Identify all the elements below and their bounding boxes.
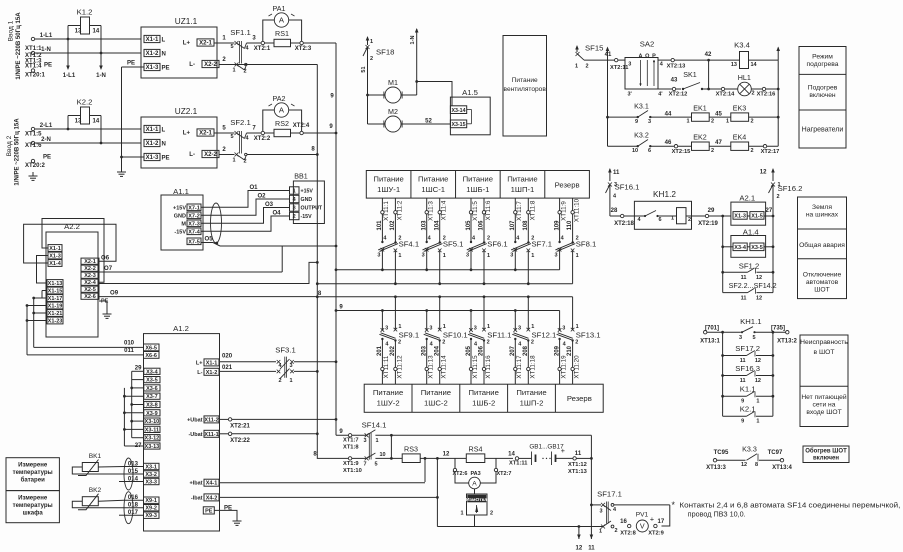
svg-text:12: 12 [756,275,762,281]
svg-text:SF2.1: SF2.1 [230,118,251,127]
svg-text:XT2:1: XT2:1 [254,46,271,52]
svg-text:X1-21: X1-21 [48,311,63,317]
svg-text:SF14.1: SF14.1 [362,421,387,430]
svg-text:SF1.2: SF1.2 [739,262,760,271]
svg-text:X3-15: X3-15 [451,122,465,128]
svg-text:3: 3 [510,253,513,259]
svg-text:XT13:3: XT13:3 [706,465,726,471]
svg-text:[701]: [701] [705,326,719,332]
svg-text:3: 3 [422,253,425,259]
svg-text:подогрева: подогрева [807,61,839,68]
svg-text:-Ubat: -Ubat [188,432,202,438]
svg-text:BB1: BB1 [294,173,308,181]
svg-text:SF3.1: SF3.1 [275,346,296,355]
svg-text:2: 2 [531,340,534,346]
svg-text:42: 42 [705,52,712,58]
svg-text:RS1: RS1 [275,30,289,38]
svg-text:Контакты 2,4 и 6,8 автомата SF: Контакты 2,4 и 6,8 автомата SF14 соедине… [679,502,900,510]
svg-text:X1-15: X1-15 [48,289,63,295]
svg-text:SF11.1: SF11.1 [487,331,511,340]
svg-text:202: 202 [390,345,396,356]
svg-text:5: 5 [230,134,233,140]
svg-text:6: 6 [658,217,661,223]
svg-text:[735]: [735] [771,326,785,332]
svg-text:107: 107 [510,220,516,231]
svg-text:XT11:18: XT11:18 [529,355,536,379]
svg-text:O1: O1 [249,185,258,191]
svg-text:X3-9: X3-9 [146,411,158,417]
svg-text:K3.2: K3.2 [634,132,649,140]
svg-text:XT11:11: XT11:11 [383,355,390,378]
svg-text:1ШУ-1: 1ШУ-1 [377,185,400,194]
svg-text:XT2:12: XT2:12 [669,92,688,98]
svg-text:XT2:17: XT2:17 [761,149,780,155]
svg-text:43: 43 [671,78,678,84]
svg-text:X7-5: X7-5 [188,239,200,245]
svg-text:L-: L- [189,152,195,158]
svg-text:PE: PE [43,155,51,161]
svg-text:2: 2 [751,119,754,125]
svg-text:X1-1: X1-1 [146,37,159,43]
svg-text:SF8.1: SF8.1 [576,240,597,249]
svg-text:SF1.1: SF1.1 [230,28,251,37]
svg-text:12: 12 [443,451,450,457]
svg-text:1: 1 [370,39,373,45]
svg-text:A: A [279,106,285,115]
svg-text:*: * [672,500,676,510]
svg-text:X2-6: X2-6 [84,294,96,300]
svg-text:2: 2 [688,217,691,223]
svg-text:X2-4: X2-4 [84,280,97,286]
svg-text:4': 4' [658,92,663,98]
svg-text:Питание: Питание [463,175,493,184]
svg-text:K3.3: K3.3 [742,446,757,454]
svg-text:210: 210 [567,345,573,356]
svg-text:+Ubat: +Ubat [187,417,203,423]
svg-text:14: 14 [508,452,515,458]
svg-text:105: 105 [466,220,472,231]
svg-text:GB1...GB17: GB1...GB17 [529,444,564,451]
svg-text:K3.4: K3.4 [734,41,751,50]
svg-text:1: 1 [487,324,490,330]
svg-text:X3-8: X3-8 [146,403,158,409]
svg-text:X7-2: X7-2 [188,213,200,219]
svg-text:Питание: Питание [512,77,538,84]
svg-text:Нет питающей: Нет питающей [801,393,847,401]
svg-text:X1-17: X1-17 [48,296,63,302]
svg-text:XT11:15: XT11:15 [472,355,479,379]
svg-text:PA1: PA1 [273,5,286,13]
svg-text:ИзмОткл: ИзмОткл [466,497,487,503]
svg-text:SF5.1: SF5.1 [443,240,464,249]
svg-text:X2-2: X2-2 [204,152,217,158]
svg-text:1: 1 [460,511,463,517]
svg-text:12: 12 [755,378,761,384]
svg-text:3: 3 [385,326,388,332]
svg-text:XT2:16: XT2:16 [757,92,776,98]
svg-text:3: 3 [290,363,293,369]
svg-text:X2-1: X2-1 [199,41,212,47]
svg-text:включен: включен [813,456,839,462]
svg-text:X1-3: X1-3 [146,65,159,71]
svg-text:1ШП-1: 1ШП-1 [511,185,535,194]
svg-text:O: O [645,54,650,60]
svg-text:2: 2 [487,340,490,346]
svg-text:3: 3 [739,335,742,341]
svg-text:шкафа: шкафа [23,510,44,517]
svg-text:XT11:19: XT11:19 [560,355,567,379]
svg-text:TC95: TC95 [714,450,729,456]
svg-text:1: 1 [443,324,446,330]
svg-text:1ШП-2: 1ШП-2 [520,399,544,408]
svg-text:X3-3: X3-3 [145,479,157,485]
svg-text:EK2: EK2 [693,134,707,142]
svg-text:N: N [162,51,166,57]
svg-text:110: 110 [567,220,573,230]
svg-text:208: 208 [523,345,529,356]
svg-text:PE: PE [162,155,170,161]
svg-text:X3-5: X3-5 [751,245,763,251]
svg-text:205: 205 [466,345,472,356]
svg-text:РА3: РА3 [471,471,481,477]
svg-text:1: 1 [726,119,729,125]
svg-text:SF10.1: SF10.1 [443,331,468,340]
svg-text:X3-4: X3-4 [734,245,747,251]
svg-text:SF16.2: SF16.2 [778,184,803,193]
svg-text:SF9.1: SF9.1 [399,331,420,340]
svg-text:SF17.2: SF17.2 [735,344,760,353]
svg-text:O9: O9 [110,291,119,297]
svg-text:3: 3 [555,253,558,259]
svg-text:SF17.1: SF17.1 [597,490,622,499]
svg-text:включен: включен [809,92,836,99]
svg-text:XT2:8: XT2:8 [620,531,636,537]
svg-text:Отключение: Отключение [803,272,842,279]
svg-text:Ввод 1: Ввод 1 [8,20,15,41]
svg-text:1: 1 [398,253,401,259]
svg-text:SF7.1: SF7.1 [532,240,553,249]
svg-text:8: 8 [755,462,758,468]
svg-text:X1-3: X1-3 [49,254,61,260]
svg-text:A: A [639,54,643,60]
svg-text:1: 1 [531,253,534,259]
svg-text:X7-3: X7-3 [188,221,200,227]
svg-text:L+: L+ [183,41,191,47]
svg-text:2: 2 [586,64,589,70]
svg-text:XT11:5: XT11:5 [472,201,479,221]
svg-text:203: 203 [422,345,428,356]
svg-text:XT13:1: XT13:1 [700,339,720,345]
svg-text:TC97: TC97 [768,450,783,456]
svg-text:X7-4: X7-4 [188,229,201,235]
svg-text:L-: L- [197,370,202,376]
svg-text:16: 16 [620,519,627,525]
svg-text:XT2:19: XT2:19 [698,221,718,227]
svg-text:12: 12 [756,295,762,301]
svg-text:X1-4: X1-4 [49,261,62,267]
svg-text:51: 51 [361,66,367,72]
svg-text:6: 6 [648,148,651,154]
svg-text:XT2:3: XT2:3 [295,46,312,52]
svg-text:Земля: Земля [812,204,832,211]
svg-text:температуры: температуры [13,503,53,509]
svg-text:SF2.2...SF14.2: SF2.2...SF14.2 [729,282,777,290]
svg-text:A1.5: A1.5 [462,88,478,97]
svg-text:L: L [162,37,166,43]
svg-text:13: 13 [75,119,82,125]
svg-text:XT2:14: XT2:14 [716,92,736,98]
svg-text:1: 1 [756,399,759,405]
svg-text:Питание: Питание [418,175,448,184]
svg-text:29: 29 [708,208,715,214]
svg-text:ШОТ: ШОТ [814,287,829,294]
svg-text:XT1:13: XT1:13 [568,469,587,475]
svg-text:X3-4: X3-4 [146,369,159,375]
svg-text:UZ1.1: UZ1.1 [175,17,198,26]
svg-text:XT2:18: XT2:18 [614,221,634,227]
svg-text:O6: O6 [101,256,110,262]
svg-text:1ШБ-2: 1ШБ-2 [472,399,495,408]
svg-text:L-: L- [189,62,195,68]
svg-text:Обогрев ШОТ: Обогрев ШОТ [805,448,847,455]
svg-text:011: 011 [124,348,134,354]
svg-text:в ШОТ: в ШОТ [814,349,835,356]
svg-text:автоматов: автоматов [806,279,839,286]
svg-text:PA2: PA2 [273,95,286,103]
svg-text:2: 2 [615,528,618,534]
svg-text:3: 3 [599,509,602,515]
svg-text:XT11:1: XT11:1 [383,201,390,221]
svg-text:17: 17 [658,519,665,525]
svg-text:X2-2: X2-2 [204,62,217,68]
svg-text:X3-7: X3-7 [146,394,158,400]
svg-text:-15V: -15V [301,214,313,220]
svg-text:209: 209 [554,345,560,356]
svg-text:X3-5: X3-5 [146,378,158,384]
svg-text:109: 109 [554,220,560,231]
svg-text:GND: GND [174,213,186,219]
svg-text:вентиляторов: вентиляторов [504,86,547,93]
svg-text:A2.1: A2.1 [739,194,755,203]
svg-text:1: 1 [487,253,490,259]
svg-text:3: 3 [562,326,565,332]
svg-text:9: 9 [635,119,638,125]
svg-text:X11-2: X11-2 [204,417,218,423]
svg-text:X2-2: X2-2 [84,266,96,272]
svg-text:KH1.1: KH1.1 [740,317,761,326]
svg-text:1ШС-1: 1ШС-1 [421,185,445,194]
svg-text:XT1:11: XT1:11 [509,461,528,467]
svg-text:XT2:9: XT2:9 [648,531,664,537]
svg-text:1/N/PE ~220В 50Гц 15А: 1/N/PE ~220В 50Гц 15А [15,118,21,186]
svg-text:N: N [162,141,166,147]
svg-text:EK1: EK1 [693,105,707,113]
svg-text:PE: PE [127,61,135,67]
svg-text:14: 14 [93,29,100,35]
svg-text:XT11:7: XT11:7 [516,201,523,221]
svg-text:2: 2 [751,91,754,97]
svg-text:XT11:8: XT11:8 [529,200,536,220]
svg-text:1ШБ-1: 1ШБ-1 [466,185,489,194]
svg-text:Общая авария: Общая авария [799,241,845,249]
svg-text:X1-1: X1-1 [146,127,159,133]
svg-text:XT11:9: XT11:9 [560,201,567,221]
svg-text:X2-3: X2-3 [84,273,96,279]
svg-text:103: 103 [422,220,428,231]
svg-text:106: 106 [479,220,485,231]
svg-text:XT1:9: XT1:9 [343,461,359,467]
svg-text:Питание: Питание [507,175,537,184]
svg-text:11: 11 [740,378,746,384]
svg-text:1: 1 [293,189,296,195]
svg-text:44: 44 [665,112,672,118]
svg-text:XT2:11: XT2:11 [610,65,629,71]
svg-text:A1.2: A1.2 [173,324,189,333]
svg-text:2: 2 [278,378,281,384]
svg-text:5: 5 [374,462,377,468]
svg-text:X9-2: X9-2 [145,506,157,512]
svg-text:3: 3 [293,206,296,212]
svg-text:SA2: SA2 [640,40,655,49]
svg-text:X3-2: X3-2 [145,472,157,478]
svg-text:UZ2.1: UZ2.1 [175,107,198,116]
svg-text:K1.2: K1.2 [77,8,93,17]
svg-text:L: L [162,127,166,133]
svg-text:-15V: -15V [174,229,186,235]
svg-text:207: 207 [510,345,516,356]
svg-text:XT1:12: XT1:12 [568,462,587,468]
svg-text:1: 1 [398,324,401,330]
svg-text:1-N: 1-N [41,47,51,53]
svg-text:Неисправность: Неисправность [800,339,848,346]
svg-text:RS3: RS3 [404,446,418,454]
svg-text:52: 52 [425,119,432,125]
svg-text:L+: L+ [196,360,203,366]
svg-text:Питание: Питание [373,175,403,184]
svg-text:-Ibat: -Ibat [191,495,203,501]
svg-text:+15V: +15V [173,205,186,211]
svg-text:2: 2 [398,340,401,346]
svg-text:SF4.1: SF4.1 [399,240,420,249]
svg-text:13: 13 [731,62,737,68]
svg-text:X2-5: X2-5 [84,287,96,293]
svg-text:45: 45 [715,112,722,118]
svg-text:2: 2 [490,511,493,517]
svg-text:2: 2 [293,214,296,220]
svg-text:204: 204 [434,345,440,356]
svg-text:PE: PE [205,509,213,515]
svg-text:на шинках: на шинках [806,212,839,219]
svg-text:XT2:7: XT2:7 [497,471,512,477]
svg-text:1ШУ-2: 1ШУ-2 [377,399,400,408]
svg-text:Подогрев: Подогрев [808,85,838,92]
svg-text:XT11:6: XT11:6 [485,200,492,220]
svg-text:A1.1: A1.1 [173,187,189,196]
svg-text:3: 3 [518,326,521,332]
svg-text:14: 14 [751,62,758,68]
svg-text:1: 1 [443,253,446,259]
svg-text:XT2:21: XT2:21 [230,424,250,430]
svg-text:1: 1 [576,324,579,330]
svg-text:3: 3 [377,253,380,259]
svg-text:X4-1: X4-1 [206,481,218,487]
svg-text:5: 5 [752,335,755,341]
svg-text:O4: O4 [272,211,281,217]
svg-text:V: V [640,523,645,531]
svg-text:SK1: SK1 [683,71,697,79]
svg-text:2: 2 [777,194,780,200]
svg-text:2: 2 [711,119,714,125]
svg-text:206: 206 [479,345,485,356]
svg-text:2: 2 [243,69,246,75]
svg-text:O3: O3 [265,202,274,208]
svg-text:XT11:3: XT11:3 [428,201,435,221]
svg-text:X1-1: X1-1 [206,360,218,366]
svg-text:2: 2 [243,159,246,165]
svg-text:PE: PE [162,65,170,71]
svg-text:M2: M2 [388,108,398,116]
svg-text:XT1:7: XT1:7 [343,438,359,444]
svg-text:BK1: BK1 [89,453,102,460]
svg-text:EK3: EK3 [733,105,747,113]
svg-text:провод ПВЗ 10,0.: провод ПВЗ 10,0. [688,512,746,519]
svg-text:1: 1 [671,216,674,222]
svg-text:Режим: Режим [812,54,833,61]
svg-text:X3-14: X3-14 [451,108,465,114]
svg-text:1: 1 [576,253,579,259]
svg-text:41: 41 [605,52,612,58]
svg-text:входе ШОТ: входе ШОТ [806,409,841,416]
svg-text:Измерене: Измерене [18,463,48,469]
svg-text:X3-11: X3-11 [145,427,159,433]
svg-text:3': 3' [628,92,633,98]
svg-text:O5: O5 [205,237,214,243]
svg-text:O2: O2 [257,194,266,200]
svg-text:X6-5: X6-5 [145,345,157,351]
svg-text:O7: O7 [104,266,113,272]
svg-text:P: P [652,54,656,60]
svg-text:Резерв: Резерв [555,181,580,190]
svg-text:+: + [650,516,654,524]
svg-text:A1.4: A1.4 [743,228,760,237]
svg-text:28: 28 [611,208,618,214]
svg-text:XT1:1: XT1:1 [25,46,42,52]
svg-text:X7-1: X7-1 [188,205,200,211]
svg-text:2: 2 [711,148,714,154]
svg-text:1-L1: 1-L1 [40,33,53,39]
svg-text:11: 11 [588,546,595,552]
svg-text:XT2:6: XT2:6 [453,471,468,477]
svg-text:XT13:2: XT13:2 [777,339,797,345]
svg-text:10: 10 [632,148,638,154]
svg-text:46: 46 [665,140,672,146]
svg-text:108: 108 [523,220,529,231]
svg-text:K2.2: K2.2 [77,98,93,107]
svg-text:XT1:8: XT1:8 [343,445,359,451]
svg-text:X1-19: X1-19 [48,304,63,310]
svg-text:X1-3: X1-3 [146,155,159,161]
svg-text:11: 11 [741,295,747,301]
svg-text:HL1: HL1 [738,74,751,82]
svg-text:1: 1 [599,529,602,535]
svg-text:L+: L+ [183,131,191,137]
svg-text:11: 11 [613,170,620,176]
svg-text:OUTPUT: OUTPUT [301,206,323,212]
svg-text:XT1:5: XT1:5 [25,132,42,138]
svg-text:EK4: EK4 [733,134,747,142]
svg-text:2: 2 [575,340,578,346]
svg-text:101: 101 [377,220,383,231]
